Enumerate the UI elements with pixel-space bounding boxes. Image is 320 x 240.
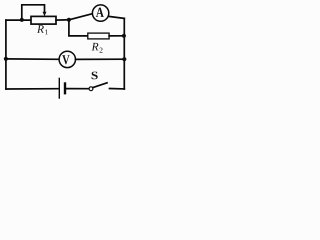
rheostat wiper arrowhead: [43, 12, 47, 16]
node voltmeter left junction: [4, 57, 8, 61]
battery long plate: [58, 78, 60, 98]
wire R1 to node: [56, 19, 69, 21]
label V (voltmeter): [62, 55, 69, 64]
wire left vertical: [5, 20, 7, 89]
node R2 right junction: [122, 34, 126, 38]
wire ammeter to right rail: [109, 16, 125, 18]
switch lever: [93, 83, 107, 88]
wire R2 to right rail: [109, 35, 124, 37]
wire rheostat wiper: [22, 5, 45, 20]
wire node to ammeter (diagonal): [69, 14, 93, 20]
wire voltmeter row left: [6, 58, 59, 60]
label R1: [37, 25, 44, 33]
switch S pivot: [89, 87, 93, 91]
wire battery to switch: [66, 88, 89, 90]
wire bottom row left: [6, 88, 58, 90]
label S (switch): [92, 72, 98, 80]
node voltmeter right junction: [122, 57, 126, 61]
resistor R2: [88, 33, 109, 39]
wire switch to right corner: [110, 88, 125, 90]
ammeter U A: [92, 5, 108, 21]
label R2: [92, 43, 99, 51]
battery short plate: [64, 84, 66, 94]
wire voltmeter row right: [76, 58, 125, 60]
label A (ammeter): [96, 8, 104, 17]
wire right vertical: [123, 18, 125, 89]
wire node down to R2 row: [69, 20, 88, 36]
wire top row left: [6, 19, 31, 21]
resistor R1: [31, 16, 56, 24]
voltmeter U V: [59, 51, 75, 67]
node split junction: [67, 18, 71, 22]
node left wiper junction: [20, 18, 24, 22]
circuit schematic: rheostat R1, ammeter A parallel R2, voltmeter V, battery, switch S: [0, 0, 133, 101]
